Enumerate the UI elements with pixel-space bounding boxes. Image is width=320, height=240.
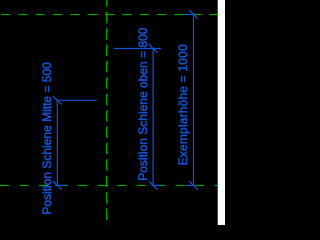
D1 top tick — [53, 96, 62, 105]
dimension D3 group: Exemplarhöhe = 1000 — [184, 10, 198, 190]
reference plane H2 (bottom, green dashed) — [0, 185, 218, 187]
D1 top witness line — [57, 99, 96, 101]
svg-text:Exemplarhöhe = 1000: Exemplarhöhe = 1000 — [176, 44, 190, 165]
D3 top witness line — [184, 13, 195, 15]
D2 dimension line — [152, 49, 154, 186]
D3 bottom witness line — [185, 185, 194, 187]
D3 top tick — [189, 10, 198, 19]
reference plane H1 (top, green dashed) — [0, 14, 218, 16]
svg-text:Position Schiene oben = 800: Position Schiene oben = 800 — [136, 27, 150, 180]
D1 bottom witness line — [55, 184, 66, 186]
drawing background — [0, 0, 225, 225]
reference plane V1 (vertical, green dashed) — [106, 0, 108, 225]
D3 dimension line — [193, 14, 195, 185]
D1 bottom tick — [53, 181, 62, 190]
dimension D2 group: Position Schiene oben = 800 — [114, 44, 161, 190]
D3 bottom tick — [189, 181, 198, 190]
svg-text:Position Schiene Mitte = 500: Position Schiene Mitte = 500 — [40, 62, 54, 215]
D2 top tick — [149, 44, 158, 53]
D1 dimension line — [56, 100, 58, 185]
view window right edge (white band) — [218, 0, 225, 225]
D2 top witness line — [114, 48, 161, 50]
D2 bottom witness line — [152, 184, 161, 186]
dimension D1 group: Position Schiene Mitte = 500 — [53, 96, 97, 190]
D2 bottom tick — [149, 181, 158, 190]
